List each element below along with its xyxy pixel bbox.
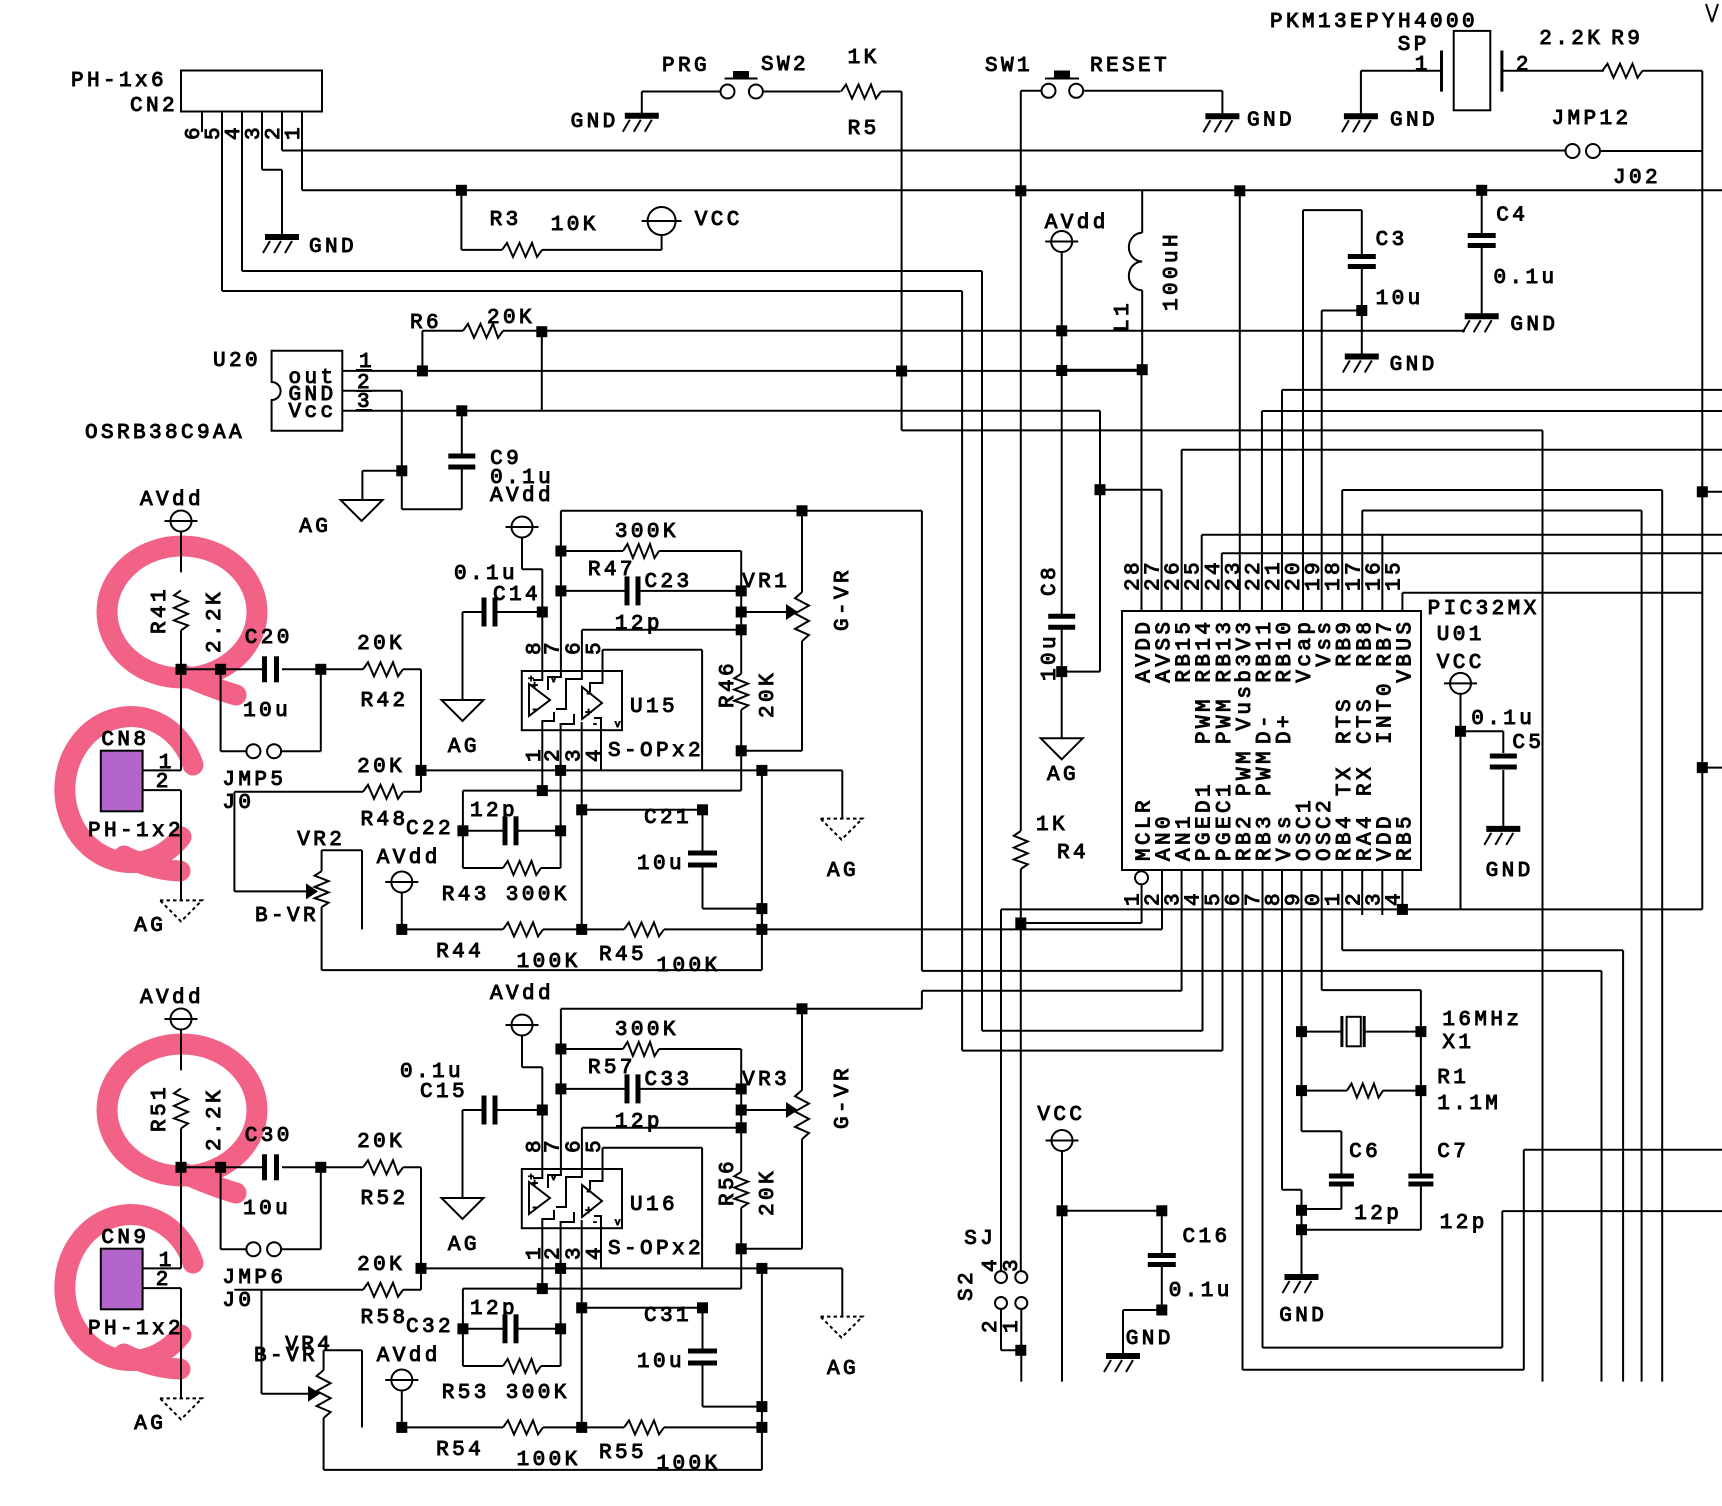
annotation pink marker loop around R41 <box>107 546 257 695</box>
U20 pin 3 wire <box>342 391 1105 672</box>
capacitor C15 0.1u <box>400 1061 542 1198</box>
svg-text:CN2: CN2 <box>130 95 175 118</box>
U01 pin 20 wire Vcap <box>1302 210 1304 611</box>
svg-text:R41: R41 <box>149 589 172 634</box>
svg-text:U15: U15 <box>630 696 675 719</box>
analog ground AG right U16 <box>821 1317 863 1381</box>
svg-text:VR3: VR3 <box>742 1069 787 1092</box>
svg-text:20K: 20K <box>757 1171 780 1216</box>
svg-text:GND: GND <box>1390 354 1435 377</box>
capacitor C7 12p <box>1296 1141 1484 1235</box>
U01 pin 28 wire <box>1141 370 1143 611</box>
U01 pin 21 wire <box>1282 390 1722 611</box>
jumper JMP6 J0 <box>221 1167 321 1313</box>
wire piezo net down right edge <box>1697 71 1722 910</box>
svg-text:4: 4 <box>584 1247 607 1260</box>
ground GND C16 <box>1104 1328 1170 1372</box>
switch SW2 PRG <box>642 54 841 99</box>
svg-text:PWM: PWM <box>1254 751 1277 796</box>
wire OSC2 net <box>1322 870 1421 1174</box>
svg-text:2: 2 <box>1516 54 1529 77</box>
CN2 pin 1 wire <box>283 111 1722 196</box>
analog ground AG U20 <box>299 471 402 539</box>
svg-text:R55: R55 <box>599 1442 644 1465</box>
svg-text:U20: U20 <box>213 350 258 373</box>
wire U15 pin1 out <box>463 730 741 868</box>
svg-text:VCC: VCC <box>1037 1104 1082 1127</box>
wire SW1 to MCLR net <box>1020 91 1022 831</box>
svg-text:VCC: VCC <box>1437 652 1482 675</box>
svg-text:SW2: SW2 <box>761 54 806 77</box>
svg-text:4: 4 <box>980 1259 1003 1272</box>
cropped text top right <box>1706 4 1718 22</box>
U01 pin 12 stub <box>1361 870 1363 915</box>
resistor R53 300K <box>463 1359 561 1373</box>
wire AN0 net <box>762 870 1162 929</box>
U01 pin 2 wire AN0 <box>0 0 1 1</box>
U01 pin 8 wire Vss <box>1282 870 1302 1277</box>
svg-text:10u: 10u <box>243 1198 288 1221</box>
svg-text:4: 4 <box>584 749 607 762</box>
U01 pin 7 wire RB3 <box>1263 870 1722 1347</box>
U01 pin 19 wire Vss <box>1321 311 1323 612</box>
CN2 pin 2 wire <box>263 111 1565 151</box>
resistor R54 100K <box>402 1420 587 1472</box>
svg-text:JMP12: JMP12 <box>1552 108 1629 131</box>
svg-text:100uH: 100uH <box>1161 234 1184 311</box>
wire R51 node <box>181 1162 262 1269</box>
capacitor C33 12p <box>561 1069 747 1134</box>
svg-text:R58: R58 <box>361 1307 406 1330</box>
svg-text:-: - <box>585 686 593 701</box>
svg-text:GND: GND <box>571 111 616 134</box>
U01 pin 22 wire <box>1262 411 1722 611</box>
U01 pin 5 wire PGEC1 <box>962 870 1222 1050</box>
svg-text:R45: R45 <box>599 944 644 967</box>
svg-text:12p: 12p <box>470 1298 515 1321</box>
wire RB4 net <box>1342 870 1623 1381</box>
CN2 pin 6 <box>183 111 206 140</box>
U16 pin5 wire <box>603 1148 703 1269</box>
annotation pink marker loop around R51 <box>107 1044 257 1193</box>
capacitor C14 0.1u <box>454 563 542 700</box>
capacitor C9 0.1u <box>402 411 551 509</box>
U01 pin 23 wire <box>1239 191 1241 611</box>
power AVdd center <box>1045 212 1106 614</box>
svg-text:1: 1 <box>283 127 306 140</box>
svg-text:2: 2 <box>980 1320 1003 1333</box>
svg-text:J02: J02 <box>1613 167 1658 190</box>
svg-text:-: - <box>531 1200 539 1215</box>
power AVdd U15 supply <box>490 485 551 569</box>
jumper JMP5 J0 <box>221 669 321 815</box>
U15 pin3 wire <box>576 730 587 929</box>
U15 pin2 wire <box>555 730 566 868</box>
resistor R58 20K <box>234 1254 421 1330</box>
U01 pin 27 wire <box>1100 490 1162 611</box>
svg-text:C22: C22 <box>406 818 451 841</box>
U01 pin 18 wire <box>1342 490 1662 1382</box>
wire AG net U16 <box>421 1263 842 1317</box>
svg-text:10u: 10u <box>637 1351 682 1374</box>
svg-text:3: 3 <box>1001 1259 1024 1272</box>
analog ground AG C14 <box>442 700 484 759</box>
svg-text:PWM: PWM <box>1214 699 1237 744</box>
svg-text:20K: 20K <box>357 1131 402 1154</box>
svg-text:C14: C14 <box>493 584 538 607</box>
resistor R6 20K <box>410 307 1465 411</box>
svg-text:VR1: VR1 <box>742 571 787 594</box>
svg-text:1: 1 <box>1415 54 1428 77</box>
potentiometer VR4 B-VR <box>254 1290 762 1470</box>
svg-text:2: 2 <box>543 749 566 762</box>
connector CN9 PH-1x2 <box>88 1227 181 1398</box>
U15 pin8 wire <box>537 569 548 671</box>
U01 pin 26 wire <box>1182 450 1722 611</box>
svg-text:U01: U01 <box>1437 624 1482 647</box>
svg-text:-: - <box>585 1184 593 1199</box>
svg-text:VR2: VR2 <box>297 829 342 852</box>
U16 pin7 wire <box>555 1009 566 1169</box>
resistor R51 2.2K <box>149 1087 227 1172</box>
svg-text:C15: C15 <box>420 1081 465 1104</box>
resistor R56 20K <box>717 1152 802 1289</box>
resistor R43 300K <box>463 861 561 875</box>
IC U20 OSRB38C9AA <box>85 350 342 445</box>
ground GND X1 <box>1279 1191 1324 1328</box>
wire block2 out to AN1 <box>922 870 1182 1009</box>
U01 pin 4 wire PGED1 <box>982 870 1203 1030</box>
U20 pin 2 wire <box>342 372 407 509</box>
jumper JMP12 <box>1552 108 1703 158</box>
svg-text:R42: R42 <box>361 690 406 713</box>
power VCC R3 <box>642 207 740 250</box>
wire U15 output top <box>561 505 922 516</box>
svg-text:10u: 10u <box>1376 288 1421 311</box>
svg-text:GND: GND <box>1390 110 1435 133</box>
capacitor C3 10u <box>1303 210 1420 356</box>
resistor R47 300K <box>561 521 741 591</box>
resistor R57 300K <box>561 1019 741 1089</box>
svg-text:RESET: RESET <box>1090 55 1167 78</box>
svg-text:+: + <box>585 706 592 720</box>
power AVdd R41 input <box>140 489 201 572</box>
svg-text:RB5: RB5 <box>1394 816 1417 861</box>
U01 pin 15 wire <box>1402 593 1702 611</box>
capacitor C16 0.1u <box>1062 1205 1229 1355</box>
svg-text:GND: GND <box>1126 1328 1171 1351</box>
inductor L1 100uH <box>1062 190 1184 369</box>
svg-text:10u: 10u <box>243 700 288 723</box>
resistor R48 20K <box>234 756 421 832</box>
svg-text:+: + <box>585 1204 592 1218</box>
svg-text:C16: C16 <box>1183 1226 1228 1249</box>
analog ground AG C15 <box>442 1198 484 1257</box>
svg-text:R54: R54 <box>436 1439 481 1462</box>
connector CN8 PH-1x2 <box>88 729 181 900</box>
resistor R1 1.1M <box>1296 1067 1498 1116</box>
svg-text:PRG: PRG <box>662 55 707 78</box>
resistor R46 20K <box>717 654 802 791</box>
svg-text:5: 5 <box>584 1140 607 1153</box>
svg-text:7: 7 <box>543 1140 566 1153</box>
svg-text:16MHz: 16MHz <box>1442 1009 1519 1032</box>
svg-text:20K: 20K <box>357 633 402 656</box>
power AVdd R54 <box>377 1345 438 1433</box>
IC U01 PIC32MX <box>1122 562 1537 906</box>
svg-text:VCC: VCC <box>695 209 740 232</box>
resistor R9 2.2K <box>1539 28 1702 78</box>
svg-text:GND: GND <box>309 236 354 259</box>
svg-text:10u: 10u <box>637 853 682 876</box>
analog ground AG right U15 <box>821 819 863 883</box>
U01 pin 13 stub <box>1381 870 1383 915</box>
svg-text:GND: GND <box>1247 110 1292 133</box>
capacitor C4 0.1u <box>1468 190 1554 316</box>
wire bus under U01 <box>1001 908 1702 910</box>
U16 pin2 wire <box>555 1228 566 1366</box>
wire AG net U15 <box>421 765 842 819</box>
potentiometer VR2 B-VR <box>234 792 762 970</box>
U15 pin4 wire <box>600 730 602 770</box>
capacitor C31 10u <box>582 1268 768 1427</box>
svg-text:2: 2 <box>543 1247 566 1260</box>
svg-text:20K: 20K <box>357 1254 402 1277</box>
svg-text:R44: R44 <box>436 941 481 964</box>
ground GND SP <box>1342 71 1435 133</box>
wire MCLR to PIC pin1 <box>1021 885 1142 924</box>
capacitor C30 10u <box>243 1125 326 1221</box>
ground GND C4 <box>1463 314 1555 337</box>
resistor R44 100K <box>402 922 587 974</box>
resistor R55 100K <box>582 1420 768 1476</box>
potentiometer VR3 G-VR <box>741 1009 855 1249</box>
U20 pin 1 wire <box>342 351 1147 376</box>
svg-text:20K: 20K <box>357 756 402 779</box>
node J02 <box>1613 167 1658 190</box>
power AVdd U16 supply <box>490 983 551 1067</box>
resistor R5 1K <box>841 47 902 430</box>
capacitor C20 10u <box>243 627 326 723</box>
ground GND C5 <box>1484 829 1530 883</box>
analog ground AG CN9 <box>134 1398 202 1436</box>
U16 pin6 wire 12p node <box>582 1089 747 1169</box>
U16 pin3 wire <box>576 1228 587 1427</box>
svg-text:7: 7 <box>543 642 566 655</box>
U15 pin5 wire <box>603 650 703 771</box>
svg-text:R48: R48 <box>361 809 406 832</box>
U16 pin4 wire <box>600 1228 602 1268</box>
resistor R4 1K <box>1014 814 1086 1271</box>
resistor R3 10K <box>461 190 661 257</box>
svg-text:R51: R51 <box>149 1087 172 1132</box>
capacitor C21 10u <box>582 770 768 929</box>
svg-text:GND: GND <box>1279 1305 1324 1328</box>
svg-text:12p: 12p <box>1354 1203 1399 1226</box>
CN2 pin 4 wire <box>223 111 982 1031</box>
wire U16 output top <box>561 1003 922 1014</box>
ground GND C3 <box>1343 354 1434 377</box>
power AVdd R44 <box>377 847 438 935</box>
svg-text:R52: R52 <box>361 1188 406 1211</box>
wire R5 net to right <box>896 366 1542 1382</box>
potentiometer VR1 G-VR <box>741 511 855 751</box>
svg-text:12p: 12p <box>615 1111 660 1134</box>
wire U16 pin1 out <box>463 1228 741 1366</box>
svg-text:-: - <box>531 702 539 717</box>
svg-text:SW1: SW1 <box>985 55 1030 78</box>
U15 pin7 wire <box>555 511 566 671</box>
capacitor C32 12p <box>406 1298 567 1405</box>
capacitor C6 12p <box>1296 1141 1399 1226</box>
CN2 pin 5 wire <box>203 111 962 1051</box>
wire OSC1 net <box>1302 870 1342 1174</box>
capacitor C22 12p <box>406 800 567 907</box>
crystal X1 16MHz <box>1296 1009 1519 1055</box>
piezo speaker SP PKM13EPYH4000 <box>1270 11 1604 110</box>
connector CN2 PH-1x6 <box>71 70 322 118</box>
resistor R42 20K <box>321 633 427 776</box>
U01 pin 6 wire RB2 <box>1243 870 1722 1370</box>
annotation pink marker loop around CN9 <box>65 1215 193 1369</box>
switch S2 SJ <box>956 1228 1027 1382</box>
ground GND SW2 <box>571 92 659 135</box>
CN2 pin 3 wire <box>243 111 282 237</box>
svg-text:C32: C32 <box>406 1316 451 1339</box>
power VCC C16 <box>1037 1104 1082 1382</box>
svg-text:12p: 12p <box>470 800 515 823</box>
U01 pin 14 wire RB5 <box>1397 870 1408 915</box>
wire VCC stem <box>1455 694 1466 910</box>
svg-text:12p: 12p <box>615 613 660 636</box>
wire block1 out to right bus <box>922 511 1602 1382</box>
U01 pin 25 wire <box>1202 535 1722 611</box>
resistor R45 100K <box>582 922 768 978</box>
capacitor C8 10u <box>1039 567 1075 738</box>
U01 pin 16 wire <box>1381 535 1383 611</box>
capacitor C23 12p <box>561 571 747 636</box>
ground GND SW1 <box>1203 91 1291 133</box>
svg-text:5: 5 <box>584 642 607 655</box>
ground GND CN2 <box>263 236 354 259</box>
U16 pin8 wire <box>537 1067 548 1169</box>
svg-text:20K: 20K <box>757 673 780 718</box>
svg-text:U16: U16 <box>630 1194 675 1217</box>
U01 pin 24 wire <box>1222 553 1722 611</box>
wire R41 node <box>181 664 262 771</box>
op-amp U15 S-OPx2 <box>522 642 701 763</box>
U15 pin6 wire 12p node <box>582 591 747 671</box>
svg-text:Vcc: Vcc <box>289 401 334 424</box>
svg-text:12p: 12p <box>1440 1212 1485 1235</box>
U01 pin 17 wire <box>1362 511 1641 1382</box>
svg-text:GND: GND <box>1510 314 1555 337</box>
switch SW1 RESET <box>985 55 1222 98</box>
svg-text:10K: 10K <box>551 214 596 237</box>
op-amp U16 S-OPx2 <box>522 1140 701 1261</box>
analog ground AG CN8 <box>134 900 202 938</box>
resistor R41 2.2K <box>149 589 227 674</box>
resistor R52 20K <box>321 1131 427 1274</box>
analog ground AG C8 <box>1041 738 1083 787</box>
capacitor C5 0.1u <box>1461 708 1542 829</box>
svg-text:GND: GND <box>1486 860 1531 883</box>
wire S2 pin4 net <box>1000 909 1002 1271</box>
power AVdd R51 input <box>140 987 201 1070</box>
power VCC U01 <box>1437 652 1482 694</box>
annotation pink marker loop around CN8 <box>65 717 193 871</box>
